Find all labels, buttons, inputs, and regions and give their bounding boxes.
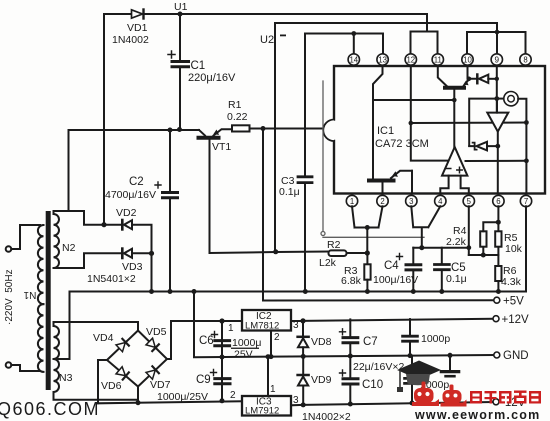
- capacitor C6: [212, 332, 230, 346]
- wire +12V line: [303, 319, 493, 321]
- svg-text:2.2k: 2.2k: [446, 236, 467, 248]
- wire IC3 ground pin 1: [267, 357, 269, 396]
- svg-text:5: 5: [467, 197, 472, 206]
- wire pin 6 column: [497, 206, 499, 291]
- svg-text:10k: 10k: [505, 243, 523, 255]
- node C6 IC2 input: [219, 318, 224, 323]
- pin 7: [520, 195, 531, 206]
- wire pin6 internal column: [497, 146, 499, 193]
- wire IC2 output to +12V line: [291, 320, 303, 322]
- wire main unregulated rail y130: [69, 129, 200, 131]
- wire negative input line to IC3: [98, 401, 242, 403]
- diode VD2: [104, 220, 152, 253]
- transistor internal lower Q2: [369, 171, 412, 194]
- svg-text:VD4: VD4: [93, 332, 114, 344]
- wire internal bias line y123: [411, 122, 528, 125]
- transistor internal Q1: [445, 79, 469, 147]
- diode internal D1: [477, 75, 497, 84]
- pin 1: [346, 195, 357, 206]
- diode VD8: [298, 321, 309, 357]
- svg-text:N1: N1: [23, 289, 36, 300]
- wire pin 5 stub: [468, 206, 470, 255]
- svg-text:IC1: IC1: [377, 125, 394, 137]
- node R1 output: [261, 126, 266, 131]
- wire +5V feed vertical: [262, 129, 264, 301]
- wire pin10 internal: [468, 66, 478, 79]
- wire pin13 internal column: [373, 66, 383, 178]
- pin 5: [463, 195, 474, 206]
- regulator IC2 LM7812: [242, 310, 291, 331]
- node ground line junctions: [220, 355, 225, 360]
- diode zener DZ: [469, 142, 497, 151]
- pin 9: [491, 54, 502, 65]
- node R2 R3 pins12 junction: [365, 250, 370, 255]
- resistor R2: [329, 250, 368, 256]
- svg-text:1000μ/25V: 1000μ/25V: [157, 391, 208, 403]
- svg-text:1000μ: 1000μ: [232, 337, 261, 349]
- capacitor C5: [435, 248, 450, 292]
- wire B upper rail to pins 10/9/8 bracket: [275, 23, 526, 54]
- diode VD4: [116, 339, 129, 352]
- svg-text:2: 2: [274, 332, 280, 343]
- op-amp U1 IC1 CA723CM package box: [323, 66, 545, 194]
- watermark bug logo right: [441, 385, 467, 407]
- pin 4: [435, 195, 446, 206]
- node ref circle tap: [494, 96, 499, 101]
- resistor R6: [495, 266, 501, 281]
- primary terminal top: [6, 225, 40, 252]
- wire ground line: [194, 292, 494, 358]
- diode VD9: [298, 356, 309, 404]
- node rail junctions: [149, 289, 154, 294]
- primary terminal bottom: [6, 362, 40, 371]
- svg-text:U1: U1: [174, 1, 188, 13]
- wire left vertical from top rail to VD2 node: [103, 14, 105, 225]
- capacitor C9: [211, 370, 231, 384]
- node pin6 R4 R5 top: [496, 220, 501, 225]
- node VD2 VD3 junction: [149, 251, 154, 256]
- wire ground rail drop to N3 center tap: [54, 292, 70, 360]
- wire R4 R5 bottom line: [469, 254, 499, 256]
- svg-text:+5V: +5V: [503, 296, 524, 308]
- transformer core: [46, 211, 51, 390]
- wire rectifier node to ground rail: [151, 253, 153, 291]
- svg-text:C6: C6: [199, 335, 214, 347]
- wire C rail to pins 14/13: [305, 34, 383, 55]
- svg-text:N3: N3: [59, 372, 73, 384]
- svg-text:1000p: 1000p: [421, 333, 450, 345]
- wire N2 top lead: [54, 211, 105, 225]
- pin 14: [348, 54, 359, 65]
- op-amp reference amplifier triangle: [487, 99, 508, 146]
- node bias line right: [524, 120, 529, 125]
- wire pin12 internal column to error amp inverting input: [411, 66, 449, 161]
- svg-text:4: 4: [438, 197, 443, 206]
- terminal GND: [494, 352, 500, 358]
- svg-text:3: 3: [293, 395, 299, 406]
- svg-text:22μ/16V×2: 22μ/16V×2: [353, 361, 404, 373]
- wire bridge negative output: [98, 360, 107, 403]
- op-amp error amplifier triangle: [442, 147, 467, 176]
- svg-text:8: 8: [523, 55, 527, 64]
- pin 12: [405, 54, 416, 65]
- svg-text:0.22: 0.22: [227, 111, 248, 123]
- svg-text:7: 7: [524, 197, 528, 206]
- wire comp line pin13 to error amp emitter: [373, 99, 454, 101]
- pin 8: [520, 54, 531, 65]
- wire N3 top lead to bridge top: [54, 322, 139, 331]
- svg-text:C1: C1: [191, 60, 206, 72]
- capacitor 1000p lower: [405, 356, 420, 402]
- svg-text:2: 2: [230, 390, 236, 401]
- wire noninverting input line: [466, 160, 527, 162]
- watermark chinese site name glyph 2: [485, 391, 497, 404]
- wire IC3 output -12V line: [291, 402, 493, 405]
- resistor R5: [495, 231, 501, 246]
- svg-text:VD3: VD3: [122, 261, 143, 273]
- svg-text:N2: N2: [62, 242, 76, 254]
- svg-text:VD1: VD1: [127, 22, 148, 34]
- svg-text:2: 2: [380, 197, 384, 206]
- svg-text:1N4002: 1N4002: [112, 34, 149, 46]
- capacitor C1: [168, 14, 189, 129]
- pin 2: [377, 195, 388, 206]
- wire IC2 ground pin: [270, 331, 272, 357]
- svg-text:www.eeworm.com: www.eeworm.com: [414, 408, 540, 421]
- wire zener riser: [469, 99, 497, 146]
- svg-text:1N5401×2: 1N5401×2: [87, 273, 136, 285]
- wire VT1 base to R2: [210, 252, 329, 254]
- svg-text:1N4002×2: 1N4002×2: [302, 411, 351, 421]
- svg-text:C7: C7: [363, 336, 378, 348]
- svg-text:VD8: VD8: [311, 336, 332, 348]
- capacitor C3: [298, 177, 312, 292]
- node zener to pin6 column: [495, 144, 500, 149]
- svg-text:6.8k: 6.8k: [341, 275, 362, 287]
- capacitor C2: [155, 130, 178, 292]
- svg-text:220μ/16V: 220μ/16V: [188, 72, 236, 84]
- transistor VT1: [199, 129, 233, 253]
- svg-text:10: 10: [463, 55, 472, 64]
- wire pin 7 column: [525, 206, 527, 291]
- svg-text:C4: C4: [384, 260, 399, 272]
- watermark chinese site name glyph 4: [514, 391, 527, 404]
- resistor R3: [364, 253, 370, 292]
- pin 3: [406, 195, 417, 206]
- primary winding N1: [38, 225, 44, 372]
- wire riser N2top to main rail: [68, 130, 70, 211]
- watermark chinese site name glyph 1: [470, 391, 482, 404]
- pin 6: [493, 195, 504, 206]
- svg-text:VD2: VD2: [116, 207, 137, 219]
- diode VD7: [146, 366, 159, 379]
- pin 13: [377, 54, 388, 65]
- svg-text:GND: GND: [503, 350, 529, 362]
- watermark chinese site name glyph 5: [529, 391, 541, 404]
- svg-text:4700μ/16V: 4700μ/16V: [105, 189, 156, 201]
- svg-text:C9: C9: [196, 374, 211, 386]
- svg-text:+12V: +12V: [502, 314, 530, 326]
- watermark chinese site name glyph 3: [499, 391, 512, 404]
- svg-text:1: 1: [270, 384, 276, 395]
- svg-text:CA72 3CM: CA72 3CM: [375, 138, 429, 150]
- svg-text:LM7812: LM7812: [245, 321, 279, 332]
- watermark graduation cap: [397, 361, 441, 393]
- svg-text:13: 13: [378, 55, 387, 64]
- tick U2 dash: [280, 35, 286, 37]
- svg-text:VT1: VT1: [212, 141, 231, 153]
- svg-text:VD6: VD6: [101, 380, 122, 392]
- bridge rectifier diamond: [107, 331, 167, 387]
- svg-text:R1: R1: [228, 99, 242, 111]
- svg-text:R2: R2: [327, 239, 341, 251]
- wire pin11 to internal Q1 collector: [438, 66, 447, 86]
- wire C6 C9 column: [221, 321, 223, 401]
- wire error amp pedestal to pins 4 and 5: [440, 176, 469, 194]
- svg-text:VD9: VD9: [311, 374, 332, 386]
- svg-text:1: 1: [228, 323, 234, 334]
- node C1 bottom: [177, 127, 182, 132]
- diode VD5: [146, 338, 159, 351]
- ground symbol: [441, 355, 458, 376]
- node VD1 branch: [101, 222, 106, 227]
- svg-text:VD7: VD7: [150, 379, 171, 391]
- svg-text:4.3k: 4.3k: [501, 276, 522, 288]
- capacitor 1000p upper: [403, 319, 418, 356]
- wire C3 branch vertical: [304, 34, 306, 177]
- node U2 on R2 wire: [273, 249, 278, 254]
- svg-text:·220V 50Hz: ·220V 50Hz: [4, 269, 15, 325]
- svg-text:25V: 25V: [234, 349, 253, 361]
- svg-text:L2k: L2k: [319, 257, 337, 269]
- svg-text:14: 14: [349, 55, 358, 64]
- wire pins 3 and 4 stubs to C4 C5 rail: [411, 206, 440, 247]
- diode VD3: [122, 249, 151, 258]
- svg-text:6: 6: [496, 197, 500, 206]
- terminal +5V: [494, 297, 500, 303]
- svg-text:U2: U2: [260, 34, 274, 46]
- secondary winding N3: [54, 326, 60, 392]
- pin 11: [432, 54, 443, 65]
- current source symbol: [497, 92, 527, 194]
- wire bridge positive output to C6 IC2: [167, 321, 242, 359]
- wire common ground rail y291: [70, 291, 527, 293]
- svg-text:C2: C2: [129, 176, 144, 188]
- svg-text:0.1μ: 0.1μ: [446, 273, 467, 285]
- svg-text:Q606.COM: Q606.COM: [0, 399, 100, 419]
- regulator IC3 LM7912: [242, 396, 291, 416]
- terminal +12V: [493, 316, 499, 322]
- capacitor C4: [397, 248, 421, 292]
- diode VD1: [132, 10, 144, 19]
- resistor R4: [480, 222, 498, 255]
- svg-text:100μ/16V: 100μ/16V: [373, 274, 418, 286]
- wire pins 1 and 2 stubs to R2 R3 node: [352, 206, 383, 253]
- svg-text:1: 1: [350, 197, 354, 206]
- svg-text:3: 3: [293, 320, 299, 331]
- wire bridge bottom vertex drop: [137, 387, 139, 400]
- wire C4 C5 top rail: [413, 247, 469, 249]
- wire top rail U1 from left corner to pins 12/11 bracket: [104, 14, 438, 54]
- node pin12 column feedback tap: [409, 121, 414, 126]
- wire pin9 internal column: [496, 66, 498, 113]
- node noninverting line right: [524, 158, 529, 163]
- terminal -12V: [493, 399, 499, 405]
- node C2 tap: [168, 128, 173, 133]
- capacitor C7: [340, 319, 358, 356]
- svg-text:12: 12: [406, 55, 415, 64]
- resistor R1: [232, 125, 334, 131]
- pin 10: [462, 54, 473, 65]
- svg-text:C10: C10: [362, 379, 383, 391]
- node U1: [178, 12, 183, 17]
- wire faint construction line: [321, 81, 424, 237]
- capacitor C10: [340, 356, 359, 403]
- wire +5V output line: [263, 299, 494, 301]
- wire N2 bottom lead: [54, 253, 123, 268]
- svg-text:9: 9: [495, 55, 500, 64]
- svg-text:0.1μ: 0.1μ: [279, 186, 300, 198]
- svg-text:11: 11: [434, 55, 442, 64]
- svg-text:VD5: VD5: [146, 326, 167, 338]
- wire U2 vertical branch: [274, 23, 276, 252]
- svg-text:LM7912: LM7912: [245, 406, 279, 417]
- secondary winding N2: [54, 214, 60, 268]
- wire N3 bottom lead: [54, 392, 139, 400]
- watermark bug logo left: [412, 382, 439, 407]
- diode VD6: [116, 367, 129, 380]
- svg-text:3: 3: [409, 197, 413, 206]
